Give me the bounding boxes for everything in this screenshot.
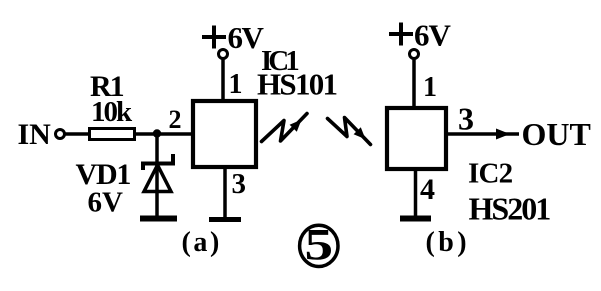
power +6V plus sign (left) bbox=[202, 35, 226, 39]
IC2 pin 4 wire to ground bbox=[414, 169, 418, 216]
IC1 pin 1 wire to +6V bbox=[221, 58, 225, 101]
svg-text:4: 4 bbox=[420, 173, 435, 206]
power +6V terminal (left, open circle) bbox=[219, 50, 228, 59]
IC2 pin 1 wire to +6V bbox=[412, 58, 416, 108]
svg-text:1: 1 bbox=[229, 69, 243, 100]
svg-text:(a): (a) bbox=[182, 227, 222, 258]
op IC1 box bbox=[193, 101, 256, 167]
OUT arrowhead bbox=[496, 129, 510, 140]
svg-text:OUT: OUT bbox=[522, 116, 591, 152]
svg-text:IC2: IC2 bbox=[468, 158, 513, 190]
svg-text:IN: IN bbox=[18, 118, 52, 151]
svg-text:10k: 10k bbox=[91, 96, 133, 128]
zener diode VD1 triangle (anode below, pointing up) bbox=[144, 165, 171, 192]
ground (below VD1) bbox=[140, 216, 177, 222]
svg-text:3: 3 bbox=[458, 101, 474, 137]
wire zener anode to ground bbox=[155, 165, 159, 216]
IC2 pin 3 wire to OUT bbox=[446, 132, 519, 136]
svg-text:2: 2 bbox=[169, 105, 182, 134]
wire resistor to node 2 to IC1 pin 2 bbox=[136, 132, 192, 136]
svg-text:6V: 6V bbox=[88, 187, 124, 219]
svg-text:HS201: HS201 bbox=[469, 191, 551, 227]
ground (below IC2) bbox=[400, 216, 431, 222]
IC1 pin 3 wire to ground bbox=[223, 167, 227, 217]
RF receive arrow (right lightning bolt) bbox=[328, 118, 371, 145]
zener diode VD1 cathode bar bbox=[143, 154, 173, 170]
svg-text:HS101: HS101 bbox=[257, 67, 337, 102]
svg-text:6V: 6V bbox=[414, 18, 452, 53]
svg-text:1: 1 bbox=[423, 72, 437, 103]
svg-text:3: 3 bbox=[232, 168, 247, 200]
figure number circled 5 bbox=[300, 221, 338, 269]
svg-text:(b): (b) bbox=[426, 227, 470, 258]
wire IN terminal to resistor R1 bbox=[65, 132, 90, 136]
power +6V terminal (right, open circle) bbox=[410, 50, 419, 59]
svg-text:5: 5 bbox=[305, 221, 334, 269]
power +6V plus sign (right) bbox=[389, 32, 413, 36]
ground (below IC1) bbox=[209, 217, 241, 222]
wire node down to zener VD1 bbox=[155, 134, 159, 163]
RF transmit arrow (left lightning bolt) bbox=[262, 114, 308, 142]
node junction dot bbox=[153, 129, 161, 137]
resistor R1 body bbox=[90, 129, 135, 140]
op IC2 box bbox=[387, 108, 446, 169]
terminal IN (open circle) bbox=[56, 130, 65, 139]
svg-text:6V: 6V bbox=[228, 20, 265, 55]
